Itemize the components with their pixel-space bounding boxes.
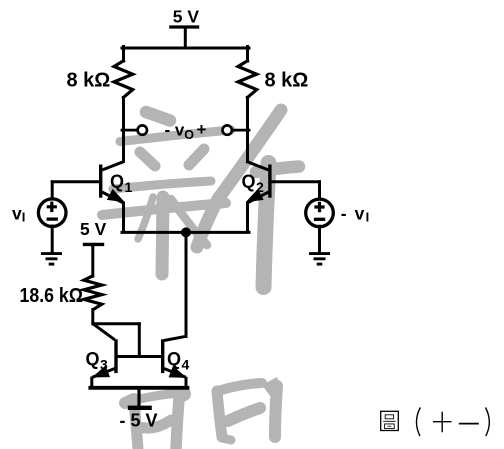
xin horizontal 3 bbox=[102, 203, 226, 215]
wire right collector top bbox=[246, 47, 249, 62]
wire -5V stem bbox=[137, 388, 140, 407]
wire 5V stem bbox=[184, 27, 187, 48]
glyph ten bbox=[433, 412, 452, 433]
wire R3 bottom bbox=[91, 310, 94, 324]
xin horizontal 2 bbox=[113, 181, 211, 189]
ri2 corner bbox=[262, 377, 282, 396]
ri1 right vertical bbox=[176, 398, 179, 449]
resistor R3 18.6k bbox=[84, 276, 102, 310]
svg-text:5 V: 5 V bbox=[173, 7, 200, 27]
wire right terminal stub bbox=[232, 129, 249, 132]
svg-text:I: I bbox=[22, 209, 26, 224]
jin left-falling sweep bbox=[197, 110, 281, 247]
watermark bbox=[102, 110, 299, 287]
svg-text:v: v bbox=[355, 204, 365, 224]
xin dot left bbox=[140, 152, 155, 166]
caption figure eleven bbox=[381, 408, 490, 437]
svg-text:8 kΩ: 8 kΩ bbox=[67, 69, 111, 91]
ri1 middle bar bbox=[139, 420, 171, 428]
wire right collector mid bbox=[246, 98, 249, 161]
wire left source bottom bbox=[51, 226, 54, 252]
svg-text:4: 4 bbox=[182, 356, 190, 372]
terminal left circle bbox=[138, 125, 147, 134]
ri2 top bar bbox=[218, 383, 262, 391]
svg-text:1: 1 bbox=[125, 179, 133, 195]
wire mirror top bbox=[94, 322, 140, 325]
source VI left bbox=[38, 199, 66, 227]
ground left bbox=[41, 254, 62, 265]
node emitter junction bbox=[181, 227, 191, 237]
ri1 top bar left flare bbox=[125, 399, 134, 403]
svg-text:- v: - v bbox=[165, 121, 185, 140]
transistor Q4 bbox=[163, 336, 186, 388]
svg-text:3: 3 bbox=[100, 356, 108, 372]
ri1 top bar bbox=[131, 393, 182, 401]
glyph open paren bbox=[416, 408, 420, 437]
resistor R2 8k right bbox=[238, 61, 257, 98]
xin wood left-falling bbox=[138, 197, 153, 239]
source VI right bbox=[306, 199, 334, 227]
xin horizontal 1 bbox=[120, 130, 231, 142]
svg-text:Q: Q bbox=[242, 172, 256, 192]
glyph tu box bbox=[381, 411, 399, 430]
svg-text:2: 2 bbox=[256, 179, 264, 195]
wire left collector top bbox=[122, 47, 125, 62]
wire mirror diode link bbox=[138, 324, 141, 357]
wire emitter rail bottom bbox=[90, 386, 187, 390]
wire right source bottom bbox=[318, 226, 321, 252]
ri1 left vertical bbox=[134, 400, 138, 449]
svg-text:Q: Q bbox=[110, 172, 124, 192]
svg-text:-: - bbox=[341, 204, 347, 224]
wire Q2 base bbox=[271, 180, 319, 183]
ri1 corner bbox=[180, 394, 184, 396]
ri2 left vertical bbox=[217, 391, 222, 437]
transistor Q3 bbox=[92, 324, 116, 388]
svg-text:I: I bbox=[366, 210, 370, 225]
power 5V top bar bbox=[171, 25, 198, 28]
ground right bbox=[309, 254, 330, 265]
wire tail current bbox=[185, 232, 188, 336]
wire Q1 base bbox=[52, 180, 99, 183]
wire 5V mid stem bbox=[91, 244, 94, 276]
resistor R1 8k left bbox=[114, 61, 133, 98]
svg-text:- 5 V: - 5 V bbox=[120, 410, 158, 430]
ri2 foot bbox=[222, 438, 231, 440]
glyph one bbox=[459, 423, 479, 425]
wire right source top bbox=[318, 182, 321, 200]
transistor Q1 bbox=[101, 161, 125, 233]
svg-text:5 V: 5 V bbox=[80, 219, 107, 239]
power -5V bar bbox=[128, 406, 152, 410]
terminal right circle bbox=[223, 125, 232, 134]
svg-text:+: + bbox=[197, 120, 207, 139]
svg-text:8 kΩ: 8 kΩ bbox=[265, 69, 309, 91]
jin long vertical bbox=[264, 163, 269, 287]
ri2 right vertical bbox=[275, 386, 277, 437]
xin wood vertical bbox=[162, 197, 163, 274]
wire top rail bbox=[122, 47, 249, 50]
svg-text:Q: Q bbox=[167, 349, 181, 369]
xin top dot bbox=[146, 112, 170, 121]
transistor Q2 bbox=[246, 161, 270, 233]
wire base rail Q3Q4 bbox=[117, 355, 162, 358]
svg-text:v: v bbox=[12, 203, 22, 223]
wire left collector mid bbox=[122, 98, 125, 161]
glyph close paren bbox=[486, 408, 490, 437]
jin horizontal bbox=[256, 167, 299, 173]
xin wood right-falling bbox=[171, 199, 207, 245]
svg-text:Q: Q bbox=[86, 349, 100, 369]
power 5V mid bar bbox=[83, 243, 104, 246]
xin dot right bbox=[189, 149, 204, 165]
ri2 middle bar bbox=[228, 408, 260, 421]
svg-text:18.6 kΩ: 18.6 kΩ bbox=[20, 285, 84, 307]
wire emitter rail bbox=[122, 231, 249, 234]
wire left source top bbox=[51, 182, 54, 200]
wire left terminal stub bbox=[122, 129, 138, 132]
svg-text:O: O bbox=[184, 128, 194, 142]
